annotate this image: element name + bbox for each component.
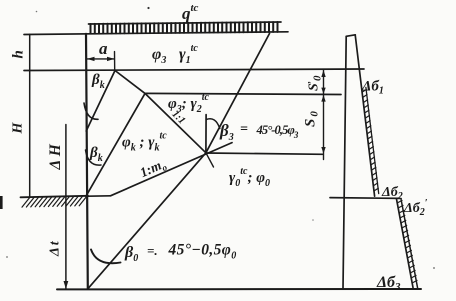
svg-text:γ0tc; φ0: γ0tc; φ0 xyxy=(229,166,270,189)
svg-text:Δб2′: Δб2′ xyxy=(403,198,428,218)
svg-text:h: h xyxy=(11,50,27,58)
svg-text:H: H xyxy=(11,122,26,135)
svg-text:=: = xyxy=(240,122,248,137)
svg-text:a: a xyxy=(99,39,108,58)
svg-text:Δt: Δt xyxy=(48,239,63,257)
svg-text:ΔH: ΔH xyxy=(47,141,64,171)
svg-text:=.: =. xyxy=(147,243,158,258)
